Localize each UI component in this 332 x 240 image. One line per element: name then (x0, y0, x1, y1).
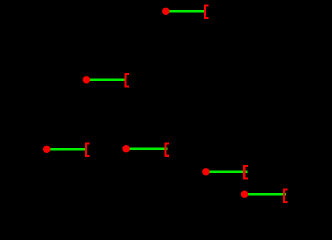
wire interval 3 line (47, 148, 86, 150)
bracket interval 3 (85, 143, 90, 158)
bracket interval 2 (124, 73, 129, 88)
wire interval 6 line (245, 193, 287, 195)
wire interval 1 line (166, 10, 205, 12)
wire interval 4 line (126, 148, 168, 150)
node interval 1 dot (162, 8, 169, 15)
bracket interval 4 (164, 142, 169, 157)
node interval 2 dot (83, 76, 90, 83)
node interval 5 dot (202, 168, 209, 175)
bracket interval 1 (204, 5, 209, 20)
bracket interval 5 (243, 165, 248, 180)
bracket interval 6 (283, 189, 288, 204)
wire interval 2 line (86, 79, 125, 81)
node interval 4 dot (122, 145, 129, 152)
node interval 6 dot (241, 191, 248, 198)
node interval 3 dot (43, 146, 50, 153)
wire interval 5 line (206, 171, 248, 173)
